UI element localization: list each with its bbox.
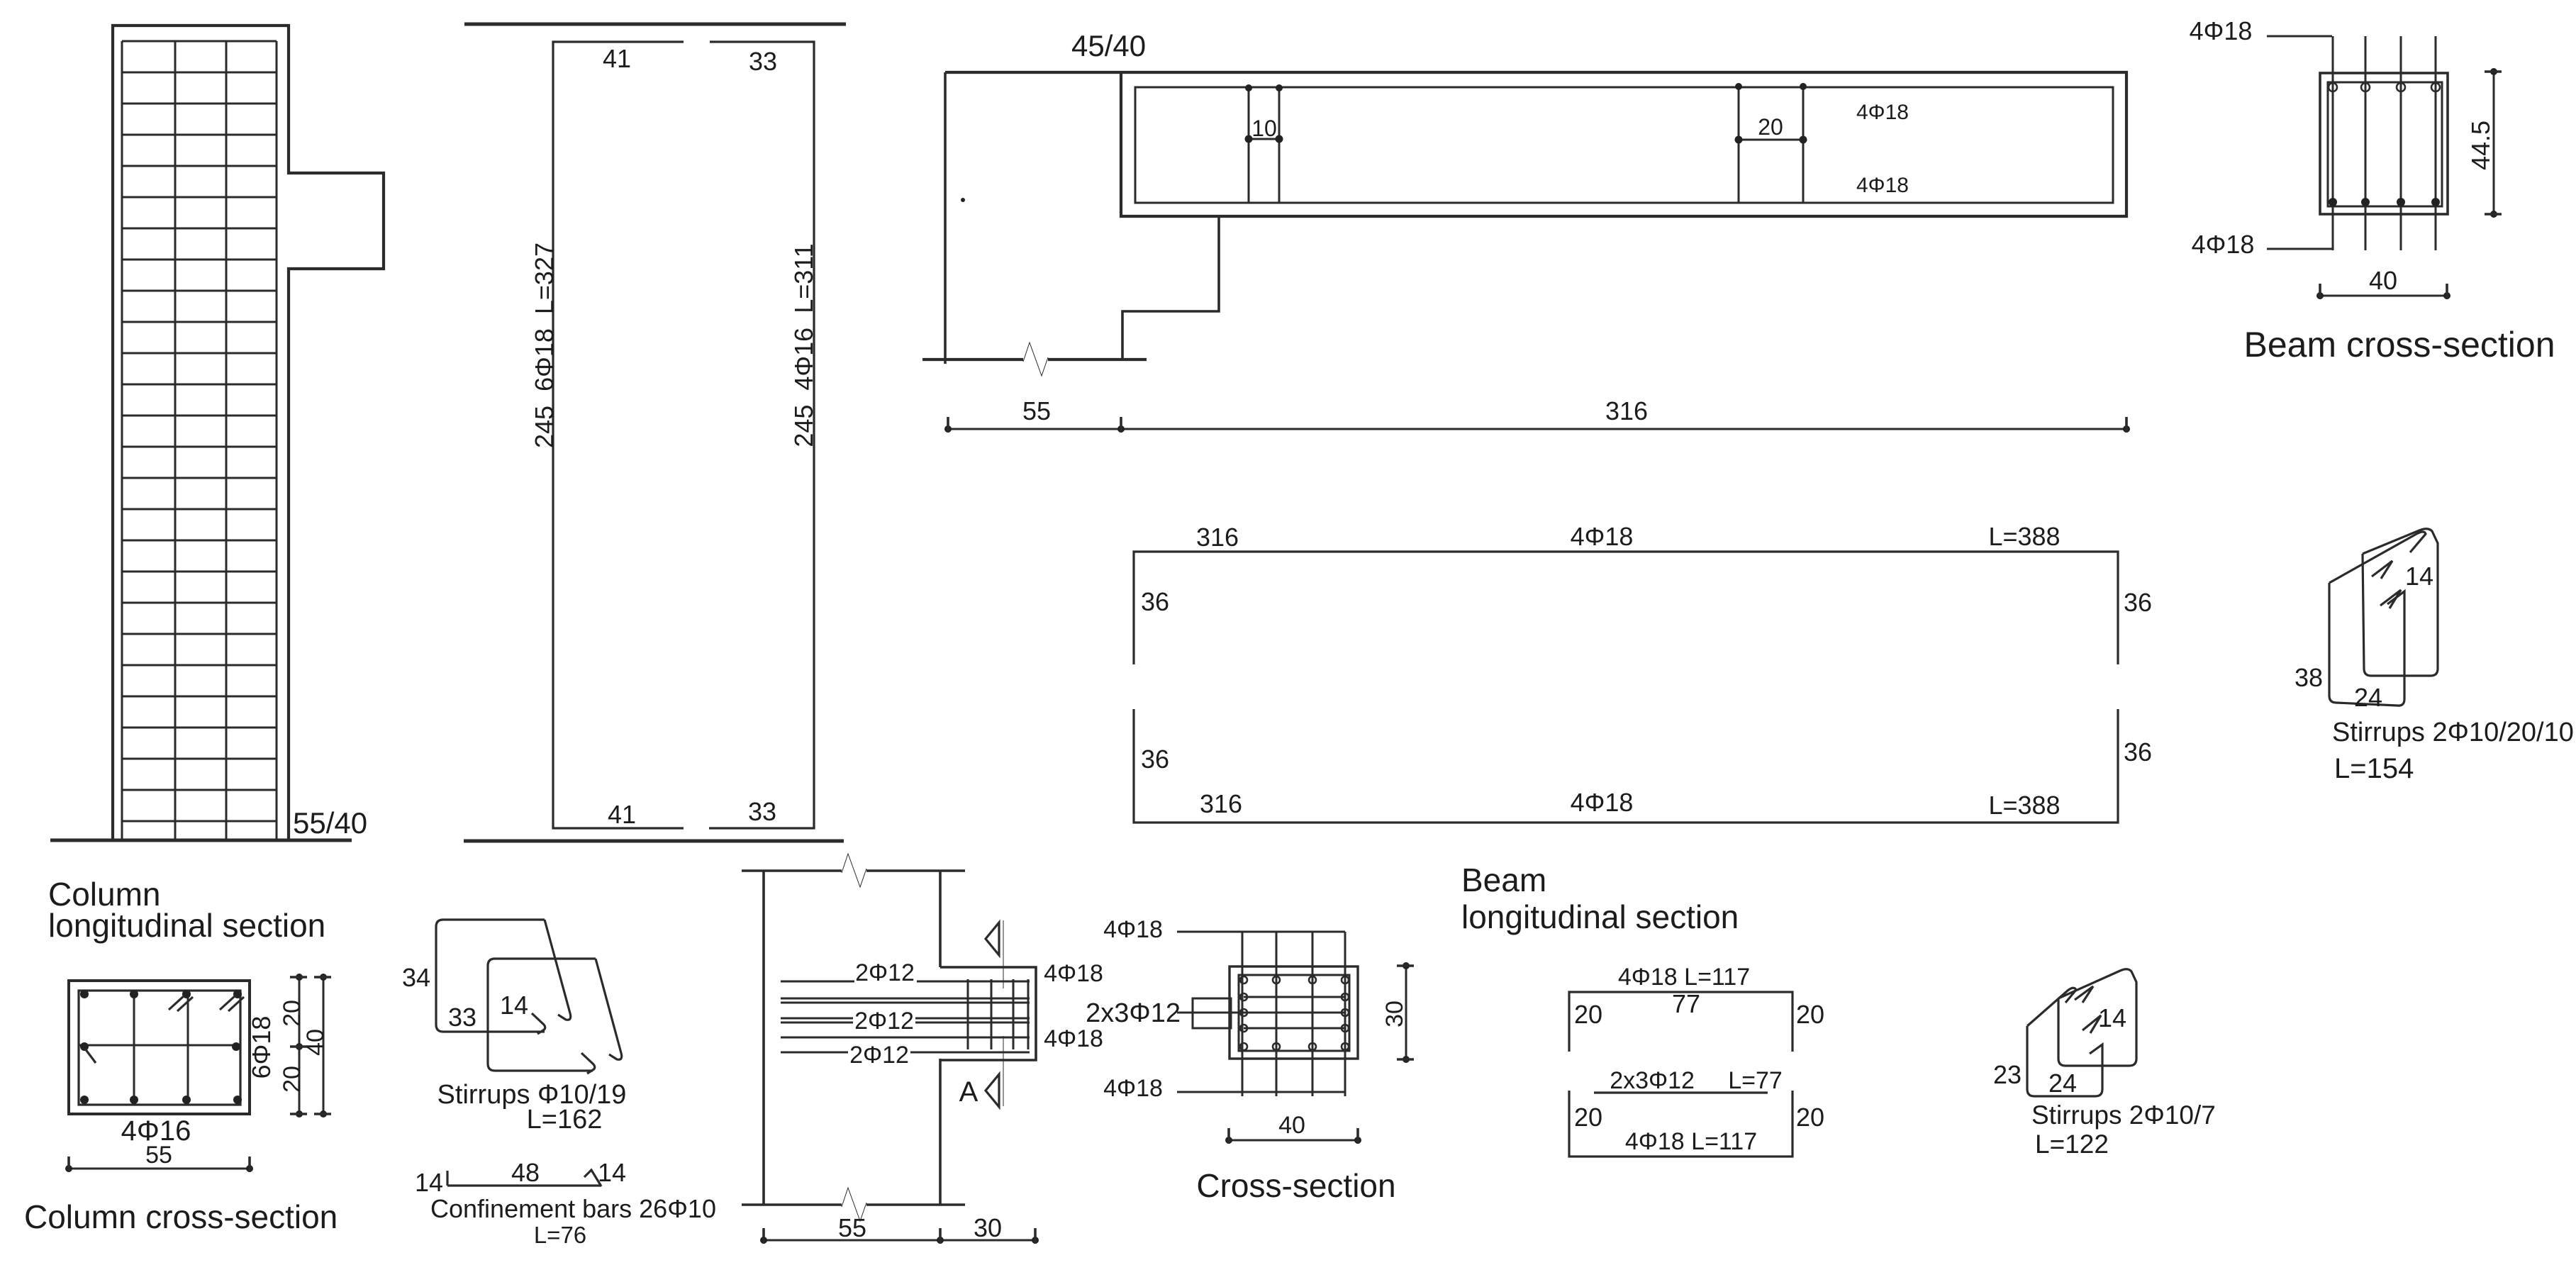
dimension 40 bottom — [2316, 266, 2450, 299]
label 2Φ12 middle — [853, 1008, 915, 1035]
joint bottom line with break — [742, 1188, 965, 1221]
beam cs stirrup rectangle — [2328, 82, 2442, 206]
dimension 30 right of cross-section — [1381, 962, 1414, 1063]
svg-text:Column cross-section: Column cross-section — [24, 1198, 338, 1235]
svg-text:Stirrups 2Φ10/20/10: Stirrups 2Φ10/20/10 — [2332, 718, 2574, 747]
svg-text:40: 40 — [302, 1029, 329, 1056]
svg-text:4Φ18: 4Φ18 — [1103, 916, 1163, 943]
stirrup pair at 20 spacing — [1735, 83, 1807, 203]
svg-text:Cross-section: Cross-section — [1196, 1167, 1395, 1204]
svg-text:L=388: L=388 — [1988, 791, 2060, 820]
bar 4Φ16 L=311 bent bar — [709, 42, 814, 828]
stirrup Φ10/19 front loop — [436, 920, 571, 1034]
column cross-section rebar dots — [80, 990, 242, 1104]
svg-text:Confinement bars 26Φ10: Confinement bars 26Φ10 — [430, 1194, 716, 1223]
cross-section slab bar horizontals — [1177, 997, 1345, 1028]
svg-text:Stirrups 2Φ10/7: Stirrups 2Φ10/7 — [2031, 1100, 2216, 1130]
svg-text:24: 24 — [2048, 1069, 2077, 1098]
joint column right edge upper — [939, 871, 942, 967]
svg-text:48: 48 — [511, 1158, 540, 1187]
svg-text:36: 36 — [1141, 745, 1169, 774]
stirrup 2Φ10/7 hook chevrons — [2075, 986, 2101, 1033]
column cross-section middle tie horizontal — [79, 1044, 240, 1047]
stub stirrup verticals — [968, 979, 1028, 1049]
svg-text:316: 316 — [1196, 523, 1239, 552]
svg-text:longitudinal section: longitudinal section — [1461, 898, 1739, 935]
middle bar 2x3Φ12 L=77 — [1594, 1091, 1768, 1093]
svg-text:L=162: L=162 — [527, 1105, 603, 1135]
stirrup 2Φ10/20/10 front loop — [2329, 532, 2426, 706]
svg-text:4Φ18: 4Φ18 — [1103, 1075, 1163, 1102]
ground line under column — [50, 839, 352, 842]
svg-text:Beam cross-section: Beam cross-section — [2243, 325, 2555, 364]
svg-text:245 6Φ18 L=327: 245 6Φ18 L=327 — [530, 243, 559, 448]
svg-text:55: 55 — [145, 1142, 172, 1169]
svg-text:40: 40 — [2369, 266, 2397, 295]
stirrup 2Φ10/7 back loop — [2058, 969, 2136, 1066]
beam cs rebar dots — [2329, 83, 2440, 206]
svg-text:41: 41 — [608, 800, 636, 829]
beam inner stirrup cage rectangle — [1135, 87, 2113, 203]
top bar 4Φ18 L=388 — [1134, 552, 2118, 664]
svg-text:45/40: 45/40 — [1071, 29, 1146, 62]
stirrup hook chevrons — [2372, 561, 2401, 608]
joint column left edge — [762, 871, 765, 1205]
joint column right edge lower — [939, 1059, 942, 1205]
svg-text:23: 23 — [1993, 1060, 2022, 1089]
joint top line with break — [742, 854, 965, 887]
svg-text:33: 33 — [448, 1003, 476, 1032]
top reference line — [464, 23, 846, 26]
svg-text:55: 55 — [838, 1213, 866, 1242]
svg-text:33: 33 — [749, 47, 777, 76]
cross-section column bar verticals — [1242, 932, 1345, 1096]
svg-text:20: 20 — [1796, 1103, 1824, 1132]
svg-text:14: 14 — [2098, 1003, 2126, 1032]
beam cs top bar leader — [2267, 35, 2332, 38]
column longitudinal outline with beam stub — [113, 26, 384, 840]
ground line with break — [922, 342, 1147, 376]
svg-text:55/40: 55/40 — [293, 806, 367, 840]
dimension 55 under column section — [65, 1142, 253, 1172]
svg-text:14: 14 — [415, 1168, 443, 1197]
svg-text:33: 33 — [748, 797, 776, 826]
cross-section slab bars stub — [1193, 998, 1231, 1028]
svg-text:A: A — [959, 1076, 978, 1108]
stirrup pair at 10 spacing — [1245, 84, 1283, 203]
svg-text:4Φ18: 4Φ18 — [1856, 101, 1909, 124]
svg-text:316: 316 — [1200, 789, 1242, 818]
svg-text:30: 30 — [974, 1213, 1002, 1242]
dimension line 20/20 right of column section — [279, 974, 307, 1118]
small dot artifact — [961, 198, 965, 202]
cross-section top bar leader — [1177, 931, 1345, 933]
svg-text:4Φ18: 4Φ18 — [1856, 174, 1909, 197]
svg-text:41: 41 — [603, 44, 631, 73]
cross-section stirrup rectangle — [1239, 975, 1349, 1051]
svg-text:30: 30 — [1381, 1001, 1408, 1027]
svg-text:20: 20 — [279, 1000, 306, 1027]
svg-text:4Φ18: 4Φ18 — [2192, 230, 2255, 259]
caption Column longitudinal section — [48, 876, 325, 944]
svg-text:L=76: L=76 — [534, 1222, 586, 1248]
cross-section rebar circles — [1240, 976, 1349, 1050]
svg-text:4Φ18 L=117: 4Φ18 L=117 — [1618, 964, 1750, 991]
svg-text:2x3Φ12 L=77: 2x3Φ12 L=77 — [1610, 1067, 1783, 1094]
svg-text:2Φ12: 2Φ12 — [849, 1042, 909, 1069]
beam cs bottom bar leader — [2267, 248, 2332, 250]
svg-text:4Φ18: 4Φ18 — [1571, 788, 1634, 817]
svg-text:40: 40 — [1278, 1112, 1305, 1139]
svg-text:4Φ18: 4Φ18 — [1044, 1025, 1103, 1052]
slab bar bundle 2Φ12 lines — [781, 981, 1030, 1052]
dimension 55 / 30 under joint — [760, 1213, 1039, 1244]
svg-text:55: 55 — [1022, 396, 1051, 425]
svg-text:36: 36 — [2124, 588, 2152, 617]
svg-text:36: 36 — [1141, 587, 1169, 616]
caption Beam longitudinal section — [1461, 862, 1739, 935]
svg-text:L=388: L=388 — [1988, 522, 2060, 551]
svg-text:4Φ18: 4Φ18 — [2190, 16, 2253, 45]
svg-text:14: 14 — [2405, 562, 2433, 591]
joint beam stub outline — [940, 967, 1036, 1060]
beam cs bar verticals — [2333, 36, 2436, 250]
svg-text:20: 20 — [279, 1066, 306, 1093]
dimension 44.5 right — [2466, 68, 2502, 218]
bar 6Φ18 L=327 bent bar — [553, 42, 684, 828]
svg-text:77: 77 — [1672, 989, 1700, 1018]
label 2Φ12 top — [854, 959, 917, 986]
bottom bar 4Φ18 L=117 diagram — [1569, 1091, 1792, 1157]
column rebar cage verticals — [122, 41, 277, 840]
label 2Φ12 bottom — [848, 1042, 910, 1069]
stirrup 2Φ10/7 front loop — [2027, 988, 2102, 1096]
joint column left edge top drawing — [945, 72, 1121, 364]
svg-text:2Φ12: 2Φ12 — [854, 1008, 914, 1035]
dimension line 40 right of column section — [302, 974, 331, 1118]
bottom bar 4Φ18 L=388 — [1134, 709, 2118, 823]
rebar cut tick marks — [85, 996, 244, 1063]
svg-text:L=154: L=154 — [2334, 753, 2414, 784]
column cross-section outer concrete outline — [69, 981, 250, 1114]
column cross-section stirrup rectangle — [79, 991, 240, 1105]
svg-text:36: 36 — [2124, 737, 2152, 767]
svg-text:20: 20 — [1574, 1103, 1602, 1132]
section cut line A-A — [986, 920, 1003, 1107]
svg-text:4Φ18: 4Φ18 — [1571, 522, 1634, 551]
svg-text:316: 316 — [1605, 396, 1648, 425]
svg-text:Beam: Beam — [1461, 862, 1546, 898]
svg-text:4Φ18: 4Φ18 — [1044, 960, 1103, 987]
svg-text:20: 20 — [1796, 1000, 1824, 1029]
svg-text:44.5: 44.5 — [2466, 121, 2495, 170]
stirrup Φ10/19 back loop — [488, 959, 622, 1074]
svg-text:20: 20 — [1574, 1000, 1602, 1029]
column stirrup rungs — [122, 41, 277, 821]
stirrup 2Φ10/20/10 back loop — [2363, 529, 2438, 676]
cross-section bottom bar leader — [1177, 1091, 1345, 1093]
svg-text:14: 14 — [598, 1158, 626, 1187]
confinement bar shape — [447, 1170, 601, 1186]
cross-section outer outline — [1230, 966, 1358, 1059]
dimension 55 / 316 below beam — [944, 396, 2130, 433]
svg-text:6Φ18: 6Φ18 — [247, 1016, 276, 1079]
svg-text:14: 14 — [500, 991, 528, 1020]
column cross-section inner tie verticals — [134, 991, 188, 1105]
bottom reference line — [464, 840, 844, 843]
svg-text:24: 24 — [2354, 683, 2382, 712]
svg-text:10: 10 — [1251, 116, 1277, 141]
beam outer outline — [1121, 72, 2126, 216]
svg-text:38: 38 — [2295, 663, 2323, 692]
joint step outline — [1122, 216, 1219, 360]
top bar 4Φ18 L=117 diagram — [1569, 992, 1792, 1052]
svg-text:2Φ12: 2Φ12 — [855, 959, 915, 986]
svg-text:245 4Φ16 L=311: 245 4Φ16 L=311 — [789, 243, 818, 447]
svg-text:L=122: L=122 — [2035, 1130, 2109, 1159]
svg-text:longitudinal section: longitudinal section — [48, 907, 325, 944]
svg-text:34: 34 — [402, 963, 430, 992]
dimension 40 under cross-section — [1225, 1112, 1361, 1144]
svg-text:2x3Φ12: 2x3Φ12 — [1086, 998, 1181, 1028]
svg-text:20: 20 — [1758, 114, 1783, 140]
beam cs outer outline — [2320, 73, 2448, 214]
svg-text:4Φ18 L=117: 4Φ18 L=117 — [1625, 1128, 1757, 1155]
